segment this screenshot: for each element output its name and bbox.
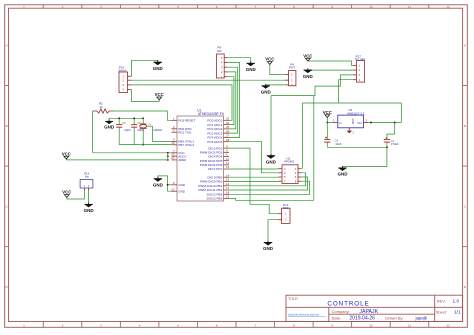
svg-text:Drawn By:: Drawn By: (385, 316, 403, 321)
svg-text:GND: GND (178, 183, 186, 187)
svg-text:GND: GND (104, 124, 115, 129)
svg-text:GND: GND (303, 74, 314, 79)
svg-text:11: 11 (408, 323, 411, 327)
svg-text:PB7 XTAL2: PB7 XTAL2 (178, 143, 194, 147)
svg-text:VCC: VCC (62, 151, 71, 156)
svg-text:10: 10 (369, 5, 373, 9)
svg-text:JAPAJK: JAPAJK (359, 309, 378, 315)
svg-text:Company:: Company: (332, 309, 350, 314)
svg-text:22pF: 22pF (137, 128, 144, 132)
svg-text:D: D (464, 285, 467, 289)
svg-text:B: B (6, 124, 8, 128)
svg-text:10: 10 (171, 141, 175, 145)
svg-text:3: 3 (100, 323, 102, 327)
svg-text:1/1: 1/1 (454, 309, 461, 315)
svg-text:2019-04-26: 2019-04-26 (349, 316, 375, 322)
svg-text:PD1 TXD: PD1 TXD (178, 130, 192, 134)
svg-text:VCC: VCC (323, 110, 332, 115)
svg-text:1k: 1k (99, 105, 103, 109)
svg-text:B: B (464, 124, 466, 128)
svg-text:https//de-diniws-jp.abictmlc: https//de-diniws-jp.abictmlc (288, 313, 320, 317)
svg-text:GND: GND (246, 67, 257, 72)
svg-text:Sheet:: Sheet: (436, 310, 447, 314)
svg-text:12: 12 (446, 5, 450, 9)
svg-text:BUZ: BUZ (283, 206, 289, 210)
svg-text:19: 19 (226, 195, 230, 199)
svg-text:22pF: 22pF (124, 128, 131, 132)
svg-text:1.0: 1.0 (453, 299, 460, 305)
svg-text:5: 5 (177, 323, 179, 327)
svg-text:CONTROLE: CONTROLE (327, 300, 369, 307)
svg-text:470uF: 470uF (391, 142, 399, 146)
svg-text:GND: GND (153, 66, 164, 71)
svg-text:C5: C5 (122, 122, 126, 125)
svg-text:PC5 ADC5: PC5 ADC5 (207, 140, 222, 144)
svg-text:GND: GND (261, 90, 272, 95)
svg-text:GND: GND (338, 172, 349, 177)
svg-text:DIG13 PB5: DIG13 PB5 (207, 197, 223, 201)
svg-text:1: 1 (173, 117, 175, 121)
svg-text:VCC: VCC (155, 92, 164, 97)
svg-text:11: 11 (408, 5, 411, 9)
svg-text:GND: GND (153, 182, 164, 187)
svg-text:SAGA: SAGA (118, 69, 126, 73)
svg-text:10uF: 10uF (335, 142, 342, 146)
svg-text:7: 7 (254, 323, 256, 327)
svg-text:VCC: VCC (265, 57, 274, 62)
svg-text:TITLE:: TITLE: (288, 297, 299, 301)
svg-text:15: 15 (226, 178, 230, 182)
svg-text:VCC: VCC (62, 190, 71, 195)
svg-text:2: 2 (62, 323, 64, 327)
svg-text:REV:: REV: (437, 299, 446, 304)
svg-text:VCC: VCC (303, 53, 312, 58)
svg-text:22: 22 (171, 187, 175, 191)
svg-text:RF2401: RF2401 (285, 160, 295, 164)
svg-text:SW: SW (217, 49, 222, 53)
svg-text:1: 1 (352, 130, 354, 134)
svg-text:In: In (339, 121, 342, 125)
svg-text:28: 28 (226, 138, 230, 142)
svg-text:DIG7 PD7: DIG7 PD7 (208, 167, 222, 171)
svg-text:8: 8 (293, 323, 295, 327)
svg-text:1: 1 (23, 323, 25, 327)
svg-text:C: C (464, 205, 467, 209)
svg-text:AMS1117-3.3: AMS1117-3.3 (347, 111, 365, 115)
svg-text:Ub_dad: Ub_dad (355, 57, 365, 61)
svg-text:GND: GND (266, 159, 277, 164)
svg-text:PC6 RESET: PC6 RESET (178, 119, 195, 123)
svg-text:GND: GND (178, 189, 186, 193)
svg-text:8: 8 (173, 181, 175, 185)
svg-text:GND: GND (84, 208, 95, 213)
svg-text:ATMEGA328P-PU: ATMEGA328P-PU (198, 112, 225, 116)
svg-text:AREF: AREF (178, 158, 186, 162)
svg-text:japajk: japajk (415, 316, 428, 321)
svg-text:12: 12 (446, 323, 450, 327)
svg-text:10: 10 (369, 323, 373, 327)
svg-text:12MHz: 12MHz (153, 128, 163, 132)
svg-text:21: 21 (171, 156, 175, 160)
svg-text:PWM DIG9 PB1: PWM DIG9 PB1 (200, 180, 223, 184)
svg-text:Out: Out (357, 121, 362, 125)
svg-text:Date:: Date: (332, 316, 342, 321)
svg-text:2: 2 (366, 119, 368, 123)
svg-text:4: 4 (139, 323, 141, 327)
svg-text:3: 3 (333, 119, 335, 123)
svg-text:A: A (6, 43, 8, 47)
svg-text:6: 6 (216, 323, 218, 327)
svg-text:GND: GND (263, 246, 274, 251)
svg-text:9: 9 (332, 323, 334, 327)
svg-text:13: 13 (226, 165, 230, 169)
svg-text:POT: POT (289, 66, 295, 70)
svg-text:GND: GND (351, 119, 354, 125)
svg-text:A: A (464, 43, 466, 47)
